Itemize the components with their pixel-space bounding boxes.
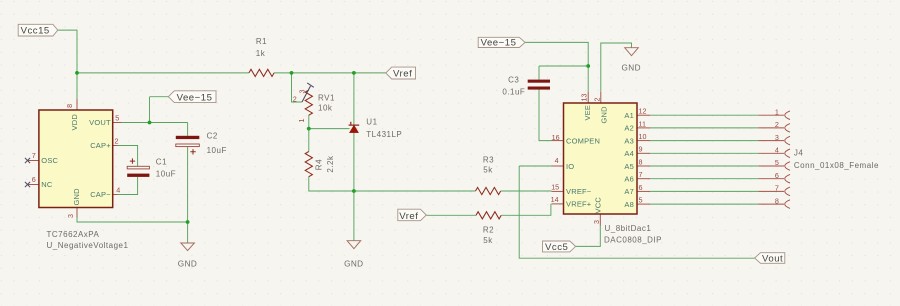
- svg-text:U_NegativeVoltage1: U_NegativeVoltage1: [47, 241, 129, 250]
- svg-text:Conn_01x08_Female: Conn_01x08_Female: [794, 161, 879, 170]
- svg-text:3: 3: [297, 90, 306, 94]
- svg-text:COMPEN: COMPEN: [566, 136, 600, 145]
- svg-text:5k: 5k: [483, 165, 493, 174]
- svg-text:Vee−15: Vee−15: [481, 38, 517, 49]
- svg-text:3: 3: [66, 214, 75, 218]
- svg-text:C1: C1: [156, 157, 167, 166]
- svg-text:R3: R3: [483, 156, 494, 165]
- svg-text:TL431LP: TL431LP: [366, 130, 402, 139]
- svg-text:5k: 5k: [483, 236, 493, 245]
- svg-text:4: 4: [775, 146, 779, 155]
- svg-text:4: 4: [116, 185, 120, 194]
- svg-text:10uF: 10uF: [156, 169, 176, 178]
- svg-text:A7: A7: [624, 187, 634, 196]
- svg-text:0.1uF: 0.1uF: [502, 87, 525, 96]
- svg-text:CAP−: CAP−: [90, 190, 111, 199]
- svg-text:13: 13: [580, 94, 589, 102]
- svg-text:2: 2: [593, 98, 602, 102]
- svg-text:VOUT: VOUT: [89, 118, 111, 127]
- svg-text:A2: A2: [624, 124, 634, 133]
- svg-text:Vcc5: Vcc5: [545, 242, 568, 253]
- svg-text:A3: A3: [624, 136, 634, 145]
- svg-text:9: 9: [639, 145, 643, 154]
- svg-text:VREF−: VREF−: [566, 187, 592, 196]
- svg-text:NC: NC: [41, 180, 53, 189]
- svg-text:GND: GND: [72, 188, 81, 206]
- svg-text:R2: R2: [483, 226, 494, 235]
- svg-text:7: 7: [775, 184, 779, 193]
- svg-text:4: 4: [555, 156, 559, 165]
- svg-text:A1: A1: [624, 111, 634, 120]
- svg-text:6: 6: [639, 183, 643, 192]
- svg-text:C2: C2: [207, 132, 218, 141]
- svg-text:GND: GND: [599, 106, 608, 124]
- svg-text:5: 5: [115, 113, 119, 122]
- svg-text:14: 14: [551, 195, 559, 204]
- svg-text:U_8bitDac1: U_8bitDac1: [605, 224, 652, 233]
- svg-text:RV1: RV1: [318, 94, 335, 103]
- svg-text:A6: A6: [624, 175, 634, 184]
- svg-text:16: 16: [552, 133, 560, 142]
- svg-text:6: 6: [32, 175, 36, 184]
- svg-text:8: 8: [639, 157, 643, 166]
- svg-text:11: 11: [639, 119, 646, 128]
- svg-text:8: 8: [65, 104, 74, 108]
- svg-text:15: 15: [551, 183, 559, 192]
- svg-text:J4: J4: [794, 149, 804, 158]
- svg-text:10: 10: [639, 132, 647, 141]
- svg-text:C3: C3: [508, 75, 519, 84]
- svg-text:DAC0808_DIP: DAC0808_DIP: [604, 236, 662, 245]
- svg-text:12: 12: [639, 107, 647, 116]
- svg-text:2: 2: [115, 137, 119, 146]
- svg-text:GND: GND: [178, 259, 197, 268]
- svg-text:R4: R4: [315, 159, 324, 170]
- svg-text:CAP+: CAP+: [90, 141, 111, 150]
- svg-text:3: 3: [592, 220, 601, 224]
- svg-text:5: 5: [775, 158, 779, 167]
- svg-text:Vref: Vref: [399, 211, 418, 222]
- svg-text:1: 1: [297, 119, 306, 123]
- svg-text:TC7662AxPA: TC7662AxPA: [47, 230, 100, 239]
- svg-text:Vref: Vref: [393, 69, 412, 80]
- svg-text:Vcc15: Vcc15: [21, 26, 50, 37]
- svg-text:6: 6: [775, 171, 779, 180]
- svg-text:GND: GND: [621, 63, 640, 72]
- svg-text:7: 7: [639, 170, 643, 179]
- svg-text:U1: U1: [366, 118, 377, 127]
- svg-text:R1: R1: [256, 37, 267, 46]
- svg-text:OSC: OSC: [41, 156, 58, 165]
- svg-text:2: 2: [775, 120, 779, 129]
- svg-text:8: 8: [775, 196, 779, 205]
- svg-text:VEE: VEE: [583, 105, 592, 121]
- svg-text:Vout: Vout: [762, 254, 783, 265]
- svg-text:Vee−15: Vee−15: [177, 92, 213, 103]
- svg-text:10k: 10k: [318, 103, 333, 112]
- svg-text:10uF: 10uF: [207, 146, 227, 155]
- svg-text:2: 2: [293, 94, 297, 103]
- svg-text:A8: A8: [624, 200, 634, 209]
- svg-text:3: 3: [775, 133, 779, 142]
- svg-text:IO: IO: [566, 162, 574, 171]
- svg-text:2.2k: 2.2k: [326, 155, 335, 173]
- svg-text:VREF+: VREF+: [566, 200, 592, 209]
- svg-text:7: 7: [32, 151, 36, 160]
- svg-text:A5: A5: [624, 162, 634, 171]
- svg-text:VCC: VCC: [594, 197, 603, 214]
- svg-text:GND: GND: [344, 259, 363, 268]
- svg-text:A4: A4: [624, 149, 634, 158]
- svg-text:1: 1: [775, 107, 779, 116]
- svg-text:5: 5: [639, 196, 643, 205]
- svg-text:1k: 1k: [256, 49, 266, 58]
- svg-text:VDD: VDD: [70, 114, 79, 131]
